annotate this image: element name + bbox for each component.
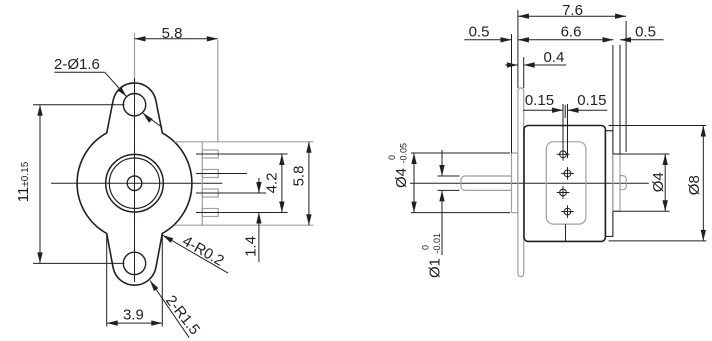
dimensions 0.15 / 0.15 (pin stagger): [523, 109, 563, 111]
svg-text:Ø8: Ø8: [686, 175, 703, 195]
svg-text:3.9: 3.9: [123, 307, 144, 324]
dimension 6.6: [518, 39, 614, 41]
dimension Ø1 shaft with tolerance: [438, 175, 460, 177]
extension lines 7.6: [517, 10, 519, 88]
svg-text:1.4: 1.4: [243, 236, 260, 257]
gray extension line at pin tips: [217, 40, 219, 142]
body seam line below connector: [565, 224, 567, 241]
svg-text:5.8: 5.8: [162, 25, 183, 42]
dimension Ø4 rear boss: [664, 154, 666, 211]
dimension 0.5 right: [620, 39, 664, 41]
rear bearing nub (gray): [620, 176, 626, 190]
front bearing hub (gray): [512, 153, 518, 213]
dimension 0.4 (plate thickness): [505, 64, 518, 66]
svg-text:2-R1.5: 2-R1.5: [162, 292, 203, 338]
svg-text:0.5: 0.5: [635, 24, 656, 41]
svg-text:4-R0.2: 4-R0.2: [179, 233, 226, 270]
top mounting hole Ø1.6: [123, 94, 145, 116]
svg-text:Ø4: Ø4: [650, 172, 667, 192]
dimension 5.8 right (connector height): [308, 142, 310, 225]
dimension 11±0.15 (hole spacing): [39, 105, 41, 264]
dimension 4.2 (pin span): [281, 154, 283, 213]
shaft hole Ø1: [127, 176, 142, 191]
front connector pins (gray): [202, 150, 218, 158]
motor body (side): [524, 126, 605, 242]
front view vertical centerline: [134, 33, 136, 78]
svg-text:0.15: 0.15: [577, 92, 606, 109]
front inner ring circle: [109, 158, 159, 208]
svg-text:0: 0: [421, 245, 431, 250]
svg-text:2-Ø1.6: 2-Ø1.6: [54, 56, 100, 73]
connector body side view (gray): [546, 142, 586, 224]
flange plate (side, gray): [518, 88, 524, 277]
dimension 3.9 (ear width): [107, 322, 163, 324]
dimension 0.5 left: [464, 39, 511, 41]
pin centre extension lines: [196, 153, 288, 155]
svg-text:6.6: 6.6: [561, 24, 582, 41]
svg-text:0.15: 0.15: [525, 92, 554, 109]
rear boss Ø4 (gray): [613, 154, 620, 211]
bottom mounting hole Ø1.6: [123, 252, 145, 274]
svg-text:4.2: 4.2: [264, 173, 281, 194]
front view: motor flange outline (body circle + 2 ears): [77, 83, 192, 285]
label 2-R1.5 with leader: [150, 281, 189, 338]
label 4-R0.2 with leader: [162, 235, 228, 273]
svg-text:Ø1: Ø1: [427, 258, 444, 278]
dimension Ø8 body: [702, 126, 704, 241]
pin stagger extension lines: [562, 104, 564, 158]
shaft (gray): [461, 176, 512, 190]
dimension Ø4 hub with tolerance: [413, 153, 415, 213]
dimension 1.4 (pin pitch): [258, 178, 260, 193]
svg-text:-0.01: -0.01: [432, 233, 442, 254]
svg-text:Ø4: Ø4: [393, 168, 410, 188]
svg-text:0.5: 0.5: [469, 24, 490, 41]
front view horizontal centerline: [51, 182, 222, 184]
svg-text:7.6: 7.6: [562, 2, 583, 19]
dimension 5.8 top (pin length from axis): [135, 38, 218, 40]
side view horizontal centerline: [410, 182, 649, 184]
front ring Ø4 boss circle: [106, 154, 164, 212]
front connector outline (gray, projected): [174, 141, 313, 143]
dimension 7.6 overall: [518, 15, 626, 17]
svg-text:-0.05: -0.05: [399, 143, 409, 164]
rear bracket plate: [605, 131, 613, 237]
svg-text:11±0.15: 11±0.15: [15, 161, 32, 202]
svg-text:5.8: 5.8: [291, 166, 308, 187]
connector pins end-on (circle-cross): [560, 151, 567, 158]
svg-text:0.4: 0.4: [543, 49, 564, 66]
svg-text:0: 0: [387, 155, 397, 160]
